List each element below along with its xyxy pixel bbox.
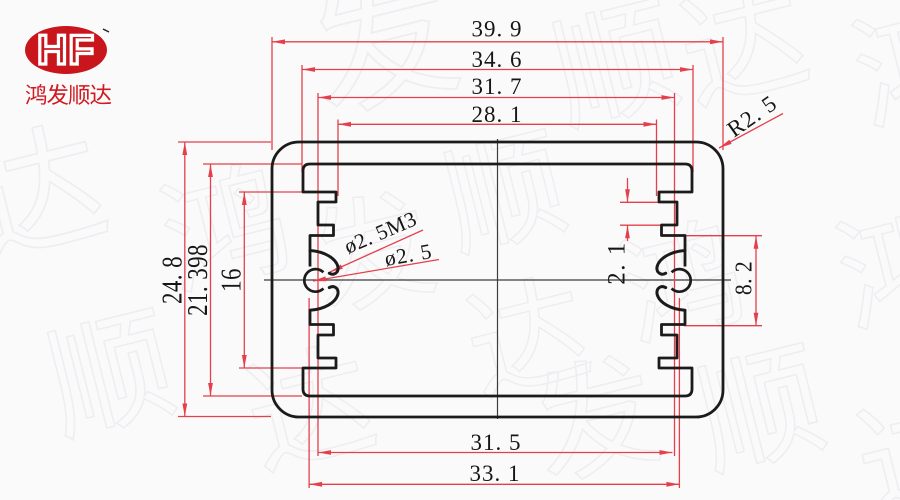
leader R2.5 corner radius <box>719 90 783 148</box>
ext 34.6 left <box>301 65 303 172</box>
inner cavity top wall + right wall upper teeth <box>659 164 692 267</box>
enclosure outer shell outline <box>272 142 723 417</box>
ext 39.9 right <box>722 37 724 150</box>
ext 28.1 left <box>337 120 339 197</box>
dimension 24.8 outer height <box>156 142 188 417</box>
ext 34.6 right <box>692 65 694 172</box>
vertical centerline <box>497 139 499 419</box>
left screw boss circle and jaws <box>304 269 323 292</box>
ext 33.1 left <box>308 298 310 488</box>
inner bottom wall <box>310 395 685 398</box>
horizontal centerline <box>264 279 731 281</box>
dimension 28.1 tooth span <box>338 102 657 127</box>
inner cavity top wall + left wall upper teeth <box>303 164 336 267</box>
left wall lower teeth + inner bottom wall start <box>303 310 336 396</box>
dimension 34.6 inner width <box>302 47 693 72</box>
svg-text:33. 1: 33. 1 <box>470 461 521 486</box>
svg-text:31. 7: 31. 7 <box>472 74 523 99</box>
ext 31.7/31.5 left <box>317 93 319 456</box>
ext 21.398 bottom <box>203 395 302 397</box>
ext 2.1 top <box>620 201 658 203</box>
leader ⌀2.5M3 tapped hole <box>330 207 423 272</box>
svg-text:8. 2: 8. 2 <box>730 261 756 295</box>
ext 8.2 top <box>684 235 762 237</box>
dimension 31.5 bottom span <box>318 430 673 455</box>
ext 28.1 right <box>656 120 658 197</box>
ext 16 top <box>239 191 314 193</box>
dimension 31.7 boss span <box>318 74 675 100</box>
svg-text:39. 9: 39. 9 <box>472 17 523 42</box>
svg-text:34. 6: 34. 6 <box>472 47 523 72</box>
logo text 鸿发顺达 <box>26 84 46 105</box>
ext 21.398 top <box>203 163 302 165</box>
svg-text:21. 398: 21. 398 <box>182 244 214 316</box>
ext 8.2 bottom <box>684 325 762 327</box>
svg-text:2. 1: 2. 1 <box>604 241 631 285</box>
ext 24.8 top <box>178 141 271 143</box>
dimension 33.1 bottom span <box>309 461 679 487</box>
logo HF ellipse <box>25 26 107 74</box>
dimension 2.1 tooth gap <box>604 178 631 285</box>
ext 2.1 bottom <box>620 224 660 226</box>
svg-text:28. 1: 28. 1 <box>472 102 523 127</box>
ext 24.8 bottom <box>178 416 271 418</box>
svg-text:HF: HF <box>37 26 95 73</box>
right wall lower teeth + inner bottom wall <box>659 310 692 396</box>
inner top wall <box>310 163 685 166</box>
dimension 8.2 boss channel height <box>730 236 758 326</box>
right screw boss circle and jaws <box>672 269 691 292</box>
leader ⌀2.5 hole <box>313 239 439 281</box>
watermark characters (faint background) <box>299 0 463 120</box>
ext 39.9 left <box>271 37 273 150</box>
ext 33.1 right <box>678 298 680 488</box>
ext 31.7/31.5 right <box>674 93 676 456</box>
svg-text:16: 16 <box>215 268 247 292</box>
dimension 39.9 outer width <box>272 17 723 45</box>
logo trademark tick <box>103 29 109 32</box>
ext 16 bottom <box>239 367 302 369</box>
svg-text:31. 5: 31. 5 <box>471 430 522 455</box>
dimension 21.398 inner height <box>182 164 214 396</box>
dimension 16 tooth height <box>215 192 247 368</box>
